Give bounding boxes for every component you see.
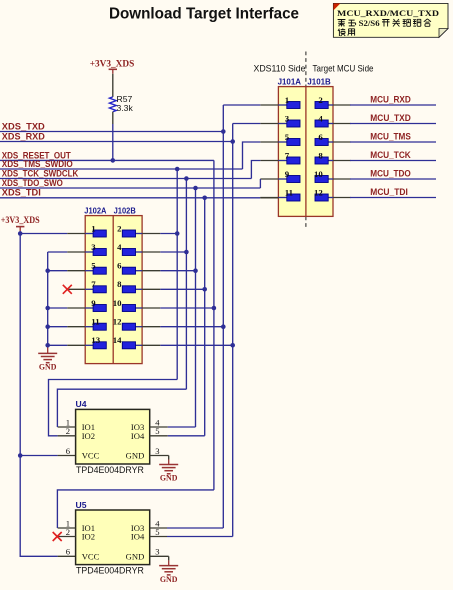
svg-text:MCU_TDI: MCU_TDI (370, 187, 408, 197)
svg-text:5: 5 (285, 132, 290, 142)
svg-text:IO4: IO4 (131, 431, 145, 441)
junction TDO (193, 186, 198, 191)
wire MCU_TMS (350, 141, 436, 143)
svg-text:8: 8 (117, 279, 122, 289)
svg-text:12: 12 (113, 317, 122, 327)
junction bus/J102B pin 4 (184, 250, 189, 255)
ground symbol J102 (38, 353, 57, 362)
dashed separator line (305, 52, 307, 230)
gnd stub U4 (168, 460, 170, 465)
svg-text:IO2: IO2 (82, 431, 95, 441)
J102B pin 2 (117, 223, 160, 237)
svg-text:2: 2 (318, 95, 323, 105)
power +3V3_XDS (J102) (1, 216, 40, 231)
junction GND rail y270.7 (45, 268, 50, 273)
wire XDS_TCK_SWDCLK (0, 178, 251, 180)
svg-text:MCU_TXD: MCU_TXD (370, 113, 411, 123)
junction TCK (184, 176, 189, 181)
U5 pin4 lead (150, 527, 167, 529)
wire MCU_TCK (350, 160, 436, 162)
no-connect X J102A pin7 (63, 285, 72, 294)
bus wire TDO vertical (195, 188, 197, 427)
U5 pin 1 (IO1) (66, 518, 95, 533)
svg-text:XDS_TDO_SWO: XDS_TDO_SWO (2, 178, 63, 188)
J102B pin 6 (117, 261, 160, 275)
wire bus TXD to J101 pin1 (223, 104, 260, 106)
svg-text:14: 14 (113, 335, 122, 345)
svg-text:GND: GND (126, 451, 145, 461)
J101A pin 5 (260, 132, 300, 146)
junction bus/J102B pin 12 (221, 324, 226, 329)
J102A pin 7 (67, 279, 106, 293)
J102A pin 13 (67, 335, 106, 349)
wire +3V3 rail down to U5 VCC (20, 231, 57, 556)
U5 pin2 lead (nc) (58, 536, 76, 538)
J102B pin 8 (117, 279, 160, 293)
U5 pin 4 (IO3) (131, 518, 160, 533)
J101A pin 9 (260, 169, 300, 183)
svg-text:1: 1 (285, 95, 289, 105)
net label MCU_TDI (370, 187, 408, 197)
svg-text:8: 8 (318, 150, 323, 160)
wire J102B pin 14 to bus (160, 344, 232, 346)
U5 pin5 lead (150, 536, 167, 538)
svg-text:1: 1 (91, 223, 95, 233)
J101A pin 7 (260, 150, 300, 164)
svg-text:7: 7 (285, 150, 290, 160)
wire R57 to XDS_RESET_OUT (112, 124, 114, 160)
wire MCU_TDO (350, 178, 436, 180)
wire J102A pin to GND rail y326.7 (48, 326, 67, 328)
wire J102B pin 10 to bus (160, 307, 214, 309)
note text line2 hanzi+S2/S6 (338, 20, 346, 27)
J101A pin 1 (260, 95, 300, 109)
U4 pin 3 (GND) (126, 446, 160, 461)
J102B pin 12 (113, 317, 161, 331)
svg-text:+3V3_XDS: +3V3_XDS (90, 60, 135, 70)
svg-text:Download Target Interface: Download Target Interface (109, 5, 299, 22)
ground symbol U5 (159, 566, 178, 575)
svg-text:XDS_RXD: XDS_RXD (2, 131, 45, 141)
svg-text:TPD4E004DRYR: TPD4E004DRYR (76, 565, 144, 575)
J101B pin 2 (315, 95, 351, 109)
J101B pin 4 (315, 113, 351, 127)
svg-text:XDS_TXD: XDS_TXD (2, 121, 45, 131)
junction bus/J102B pin 2 (175, 231, 180, 236)
wire MCU_RXD (350, 104, 436, 106)
svg-text:IO4: IO4 (131, 532, 145, 542)
junction bus/J102B pin 6 (193, 268, 198, 273)
bus wire RESET vertical (213, 160, 215, 490)
svg-text:10: 10 (113, 298, 122, 308)
wire jog pin5->TMS (243, 142, 261, 169)
svg-text:5: 5 (155, 426, 159, 436)
U4 pin 4 (IO3) (131, 417, 160, 432)
svg-text:6: 6 (66, 446, 71, 456)
svg-text:3: 3 (285, 113, 290, 123)
J102B pin 14 (113, 335, 161, 349)
wire jog pin7->TCK (251, 161, 260, 179)
J101A pin 11 lead (TDI) (260, 197, 278, 199)
J101B pin 10 (314, 169, 351, 183)
J102A pin 1 (67, 223, 106, 237)
svg-text:MCU_TDO: MCU_TDO (370, 169, 411, 179)
U4 pin2 lead (58, 435, 76, 437)
bus wire TDI vertical (204, 198, 206, 436)
net label MCU_TMS (370, 132, 411, 142)
wire J102A pin to GND rail y270.7 (48, 270, 67, 272)
resistor R57 (109, 74, 133, 124)
no-connect X U5 pin2 (53, 532, 62, 541)
wire J102B pin 2 to bus (160, 233, 177, 235)
J102A pin 9 (67, 298, 106, 312)
wire bus RESET loop to U5 pin1 (57, 490, 214, 528)
svg-text:GND: GND (160, 575, 178, 584)
J102B pin 4 (117, 242, 160, 256)
svg-text:TPD4E004DRYR: TPD4E004DRYR (76, 465, 144, 475)
U4 pin1 lead (58, 426, 76, 428)
op-amp U5 body (76, 510, 150, 565)
junction +3V3/U4 VCC (18, 453, 23, 458)
net label XDS_TXD (2, 121, 45, 131)
wire XDS_TXD (0, 131, 223, 133)
U5 pin 3 (GND) (126, 547, 160, 562)
J102A pin 5 (67, 261, 106, 275)
svg-text:IO2: IO2 (82, 532, 95, 542)
svg-text:4: 4 (117, 242, 122, 252)
svg-text:2: 2 (117, 223, 122, 233)
U5 pin 5 (IO4) (131, 527, 160, 542)
svg-text:GND: GND (160, 474, 178, 483)
junction RXD (230, 139, 235, 144)
J101A pin 3 (260, 113, 300, 127)
wire MCU_TDI (350, 197, 436, 199)
junction TDI (202, 196, 207, 201)
wire J102A pin to GND rail y345.3 (48, 344, 67, 346)
power bar +3V3_XDS top (109, 68, 117, 70)
svg-text:6: 6 (117, 261, 122, 271)
svg-text:VCC: VCC (82, 451, 100, 461)
wire J102B pin 8 to bus (160, 288, 204, 290)
svg-text:XDS_TDI: XDS_TDI (2, 188, 41, 198)
wire J102A pin1 to +3V3 rail (20, 233, 67, 235)
wire XDS_TMS_SWDIO (0, 168, 243, 170)
wire XDS_RXD (0, 141, 233, 143)
wire J102A pin3 to GND rail (48, 251, 67, 253)
svg-text:13: 13 (91, 335, 100, 345)
svg-text:U4: U4 (76, 399, 87, 409)
svg-text:4: 4 (318, 113, 323, 123)
wire U5 pin4 to bus TXD (167, 527, 223, 529)
wire bus TCK loop to U4 pin1 (57, 389, 186, 427)
svg-text:3: 3 (155, 446, 159, 456)
svg-text:6: 6 (66, 547, 71, 557)
ground symbol U4 (159, 465, 178, 474)
svg-text:12: 12 (314, 187, 323, 197)
note box (333, 3, 448, 37)
net label MCU_TCK (370, 150, 411, 160)
junction bus/J102B pin 14 (230, 343, 235, 348)
svg-text:GND: GND (39, 363, 57, 372)
J101B pin 8 (315, 150, 351, 164)
svg-text:GND: GND (126, 552, 145, 562)
svg-text:U5: U5 (76, 500, 87, 510)
junction bus/J102B pin 8 (202, 287, 207, 292)
net label XDS_TDI (2, 188, 41, 198)
net label MCU_TDO (370, 169, 411, 179)
svg-text:+3V3_XDS: +3V3_XDS (1, 216, 40, 226)
wire XDS_TDI (0, 197, 260, 199)
wire U4 pin4 to bus TDO (168, 426, 196, 428)
svg-text:MCU_RXD: MCU_RXD (370, 95, 411, 105)
junction TXD (221, 129, 226, 134)
net label XDS_TCK_SWDCLK (2, 168, 79, 178)
wire bus RXD to J101 pin3 (233, 123, 261, 125)
junction GND rail y308 (45, 306, 50, 311)
svg-text:6: 6 (318, 132, 323, 142)
net label MCU_RXD (370, 95, 411, 105)
U4 pin 6 (VCC) (66, 446, 100, 461)
svg-text:MCU_TMS: MCU_TMS (370, 132, 411, 142)
U4 pin4 lead (150, 426, 168, 428)
junction GND rail y345.3 (45, 343, 50, 348)
U4 pin 5 (IO4) (131, 426, 160, 441)
svg-text:3: 3 (155, 547, 159, 557)
svg-text:5: 5 (91, 261, 96, 271)
svg-text:11: 11 (91, 317, 99, 327)
svg-text:XDS_TMS_SWDIO: XDS_TMS_SWDIO (2, 159, 73, 169)
J102A pin 3 (67, 242, 106, 256)
net label XDS_TMS_SWDIO (2, 159, 73, 169)
svg-text:XDS110 Side: XDS110 Side (254, 64, 306, 74)
wire U5 pin5 to bus RXD (167, 536, 233, 538)
J101B pin 6 (315, 132, 351, 146)
svg-text:9: 9 (91, 298, 96, 308)
svg-text:7: 7 (91, 279, 96, 289)
U5 pin1 lead (58, 527, 76, 529)
wire J102B pin 6 to bus (160, 270, 195, 272)
wire jog pin9->TDO (259, 179, 261, 188)
net label XDS_RESET_OUT (2, 150, 72, 160)
bus wire RXD vertical (232, 124, 234, 537)
connector J101 body (278, 87, 333, 217)
junction R57/XDS_RESET_OUT (111, 158, 116, 163)
junction TMS (175, 167, 180, 172)
svg-text:2: 2 (66, 426, 70, 436)
wire GND rail (47, 252, 49, 348)
wire J102A pin to GND rail y308 (48, 307, 67, 309)
wire XDS_TDO_SWO (0, 187, 260, 189)
U5 pin3 GND lead (150, 556, 169, 560)
J102A pin 11 (67, 317, 106, 331)
wire U4 VCC to +3V3 rail (20, 455, 75, 457)
U5 pin 6 lead (58, 555, 76, 557)
J101B pin 12 (314, 187, 351, 201)
wire J102B pin 4 to bus (160, 251, 186, 253)
svg-text:Target MCU Side: Target MCU Side (313, 64, 374, 74)
svg-text:J102A: J102A (84, 206, 106, 216)
U4 pin3 GND lead (150, 456, 169, 460)
J102B pin 10 (113, 298, 161, 312)
svg-text:J101B: J101B (307, 77, 330, 87)
power +3V3_XDS (top) (90, 60, 135, 74)
svg-text:3.3k: 3.3k (117, 103, 134, 113)
junction GND rail y326.7 (45, 324, 50, 329)
net label MCU_TXD (370, 113, 411, 123)
svg-text:XDS_TCK_SWDCLK: XDS_TCK_SWDCLK (2, 168, 79, 178)
U4 pin5 lead (150, 435, 168, 437)
svg-text:11: 11 (285, 187, 293, 197)
svg-text:10: 10 (314, 169, 323, 179)
svg-text:J102B: J102B (114, 206, 136, 216)
wire XDS_RESET_OUT (0, 159, 214, 161)
junction +3V3/J102 pin1 (18, 231, 23, 236)
U4 pin 1 (IO1) (66, 417, 95, 432)
bus wire TCK vertical (185, 179, 187, 390)
svg-text:MCU_TCK: MCU_TCK (370, 150, 411, 160)
svg-text:S2/S6: S2/S6 (359, 18, 381, 28)
svg-text:VCC: VCC (82, 552, 100, 562)
connector J102 body (85, 216, 142, 364)
svg-text:3: 3 (91, 242, 96, 252)
bus wire TXD vertical (222, 105, 224, 528)
wire MCU_TXD (350, 123, 436, 125)
svg-text:J101A: J101A (278, 77, 301, 87)
wire U4 pin5 to bus TDI (168, 435, 205, 437)
net label XDS_TDO_SWO (2, 178, 63, 188)
net label XDS_RXD (2, 131, 45, 141)
power bar +3V3_XDS left (16, 226, 24, 228)
U5 pin 2 (IO2) (66, 527, 95, 542)
wire bus TMS loop to U4 pin2 (49, 380, 178, 436)
op-amp U4 body (76, 409, 150, 464)
bus wire TMS vertical (176, 169, 178, 380)
wire J102B pin 12 to bus (160, 326, 223, 328)
U4 pin 2 (IO2) (66, 426, 95, 441)
J101A pin 11 (260, 187, 300, 201)
junction bus/J102B pin 10 (212, 306, 217, 311)
svg-text:9: 9 (285, 169, 290, 179)
gnd stub J102 (47, 348, 49, 354)
note text line3 (338, 28, 345, 36)
gnd stub U5 (168, 560, 170, 565)
svg-text:MCU_RXD/MCU_TXD: MCU_RXD/MCU_TXD (337, 8, 439, 18)
U5 pin 6 (VCC) (66, 547, 100, 562)
